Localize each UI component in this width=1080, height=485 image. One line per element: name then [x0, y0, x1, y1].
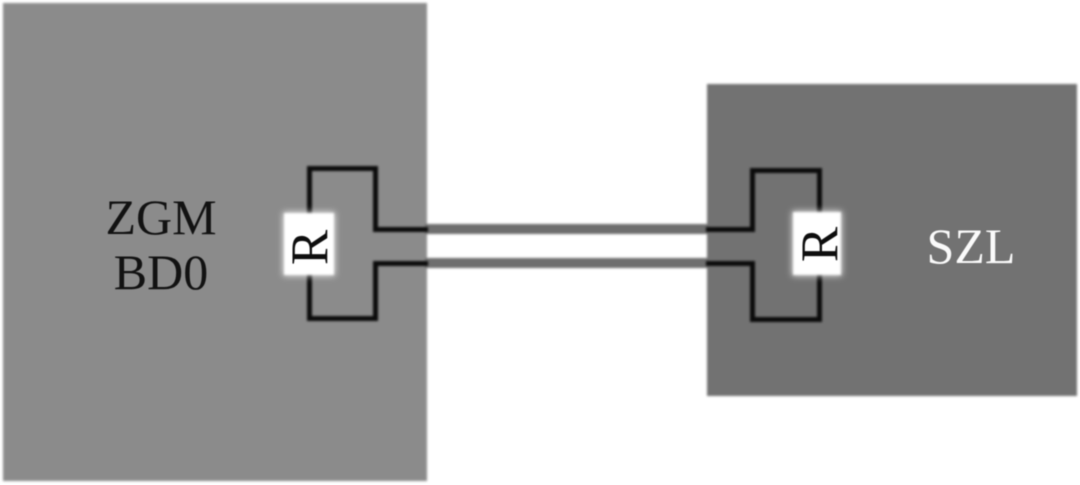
wire left bottom-right vertical [373, 261, 378, 321]
resistor R2 label R [796, 212, 845, 276]
resistor R1 label R [286, 215, 336, 279]
wire right bottom-left vertical [750, 261, 755, 322]
block ZGM BD0 [3, 3, 427, 481]
block SZL [707, 84, 1077, 396]
wire right bottom horizontal [750, 317, 822, 322]
wire left vertical through R1 [307, 166, 312, 321]
wire left top stub to box edge [373, 227, 428, 232]
wire right top stub to box edge [706, 227, 755, 232]
wire left top-right vertical [373, 166, 378, 232]
net line bottom (ZGM-SZL) [425, 258, 709, 268]
resistor R2 body [793, 212, 841, 275]
label ZGM BD0 [11, 190, 311, 299]
wire left bottom stub to box edge [373, 261, 428, 266]
wire right top-left vertical [750, 168, 755, 232]
wire left top horizontal [307, 166, 379, 171]
label SZL [821, 219, 1080, 274]
wire right bottom stub to box edge [706, 261, 755, 266]
wire right vertical through R2 [817, 168, 822, 322]
wire left bottom horizontal [307, 316, 379, 321]
wire right top horizontal [750, 168, 822, 173]
net line top (ZGM-SZL) [425, 224, 709, 234]
resistor R1 body [284, 213, 334, 275]
